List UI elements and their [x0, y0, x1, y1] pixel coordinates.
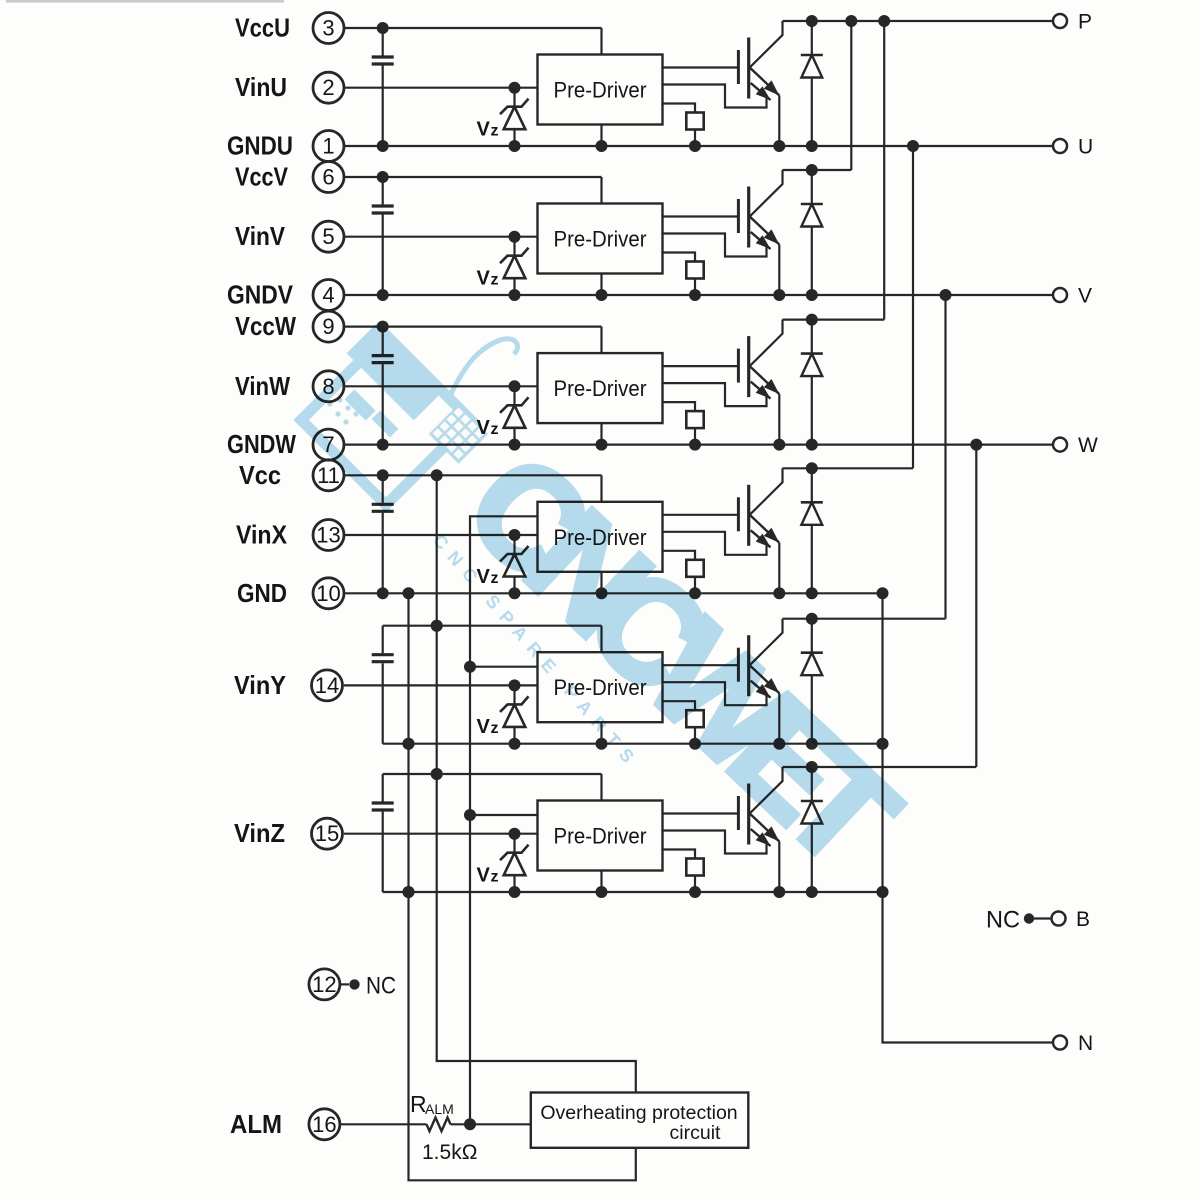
- svg-text:z: z: [491, 720, 499, 737]
- svg-text:3: 3: [322, 16, 334, 41]
- svg-text:VinX: VinX: [236, 520, 288, 550]
- svg-text:VinY: VinY: [234, 670, 286, 700]
- svg-text:z: z: [491, 869, 499, 886]
- svg-text:GNDW: GNDW: [227, 429, 296, 459]
- svg-text:13: 13: [316, 523, 340, 548]
- svg-text:1: 1: [322, 134, 334, 159]
- svg-text:z: z: [491, 272, 499, 289]
- svg-text:VccU: VccU: [235, 13, 290, 43]
- svg-text:GND: GND: [237, 578, 287, 608]
- svg-text:9: 9: [322, 314, 334, 339]
- svg-text:Pre-Driver: Pre-Driver: [554, 824, 647, 849]
- svg-text:GNDV: GNDV: [227, 280, 294, 310]
- svg-text:2: 2: [322, 75, 334, 100]
- svg-text:ALM: ALM: [230, 1109, 282, 1139]
- svg-text:VccW: VccW: [235, 311, 296, 341]
- svg-text:circuit: circuit: [670, 1122, 722, 1144]
- svg-text:10: 10: [316, 581, 340, 606]
- svg-text:Pre-Driver: Pre-Driver: [554, 227, 647, 252]
- svg-text:NC: NC: [986, 907, 1020, 934]
- svg-text:NC: NC: [366, 973, 396, 1000]
- svg-text:Vcc: Vcc: [239, 460, 281, 490]
- svg-text:V: V: [477, 865, 491, 887]
- svg-text:14: 14: [315, 673, 339, 698]
- svg-text:W: W: [1078, 434, 1098, 457]
- svg-text:5: 5: [322, 224, 334, 249]
- svg-text:z: z: [491, 421, 499, 438]
- svg-text:Pre-Driver: Pre-Driver: [554, 78, 647, 103]
- svg-text:1.5kΩ: 1.5kΩ: [422, 1141, 477, 1164]
- svg-text:Pre-Driver: Pre-Driver: [554, 376, 647, 401]
- svg-text:V: V: [1078, 285, 1092, 308]
- svg-text:B: B: [1076, 908, 1090, 931]
- svg-text:U: U: [1078, 136, 1093, 159]
- svg-text:11: 11: [317, 463, 340, 488]
- svg-text:z: z: [491, 123, 499, 140]
- svg-text:12: 12: [312, 972, 336, 997]
- svg-text:VinW: VinW: [235, 371, 290, 401]
- svg-text:16: 16: [312, 1112, 336, 1137]
- svg-text:VinZ: VinZ: [234, 818, 285, 848]
- svg-text:ALM: ALM: [425, 1101, 454, 1117]
- svg-text:VinU: VinU: [235, 72, 287, 102]
- svg-text:VinV: VinV: [235, 221, 286, 251]
- svg-text:P: P: [1078, 11, 1092, 34]
- svg-text:6: 6: [322, 165, 334, 190]
- svg-text:GNDU: GNDU: [227, 131, 293, 161]
- svg-text:4: 4: [322, 283, 334, 308]
- svg-text:V: V: [477, 268, 491, 290]
- svg-text:V: V: [477, 119, 491, 141]
- svg-text:VccV: VccV: [235, 162, 289, 192]
- svg-text:15: 15: [315, 821, 339, 846]
- svg-text:Overheating protection: Overheating protection: [540, 1102, 737, 1124]
- svg-text:N: N: [1078, 1032, 1093, 1055]
- svg-text:V: V: [477, 716, 491, 738]
